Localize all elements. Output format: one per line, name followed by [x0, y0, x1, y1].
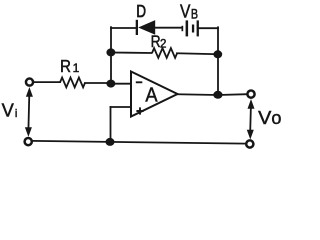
- svg-text:i: i: [15, 108, 17, 120]
- node: output junction: [213, 91, 222, 99]
- node: inverting input junction: [106, 80, 115, 88]
- battery VB bar 1 (short tick): [182, 26, 184, 31]
- node: feedback/R2 junction left: [106, 48, 115, 56]
- svg-text:D: D: [136, 1, 146, 21]
- wire input from Vi+ terminal to R1: [34, 81, 60, 83]
- wire R2 rail right segment: [177, 52, 218, 55]
- diode D (cathode bar): [136, 20, 138, 35]
- resistor R2: [152, 48, 177, 58]
- op-amp non-inverting + sign: [136, 107, 143, 114]
- op-amp A (triangle body): [131, 72, 178, 117]
- svg-text:1: 1: [73, 61, 80, 75]
- node: R2 rail right junction: [213, 50, 222, 58]
- terminal: Vi bottom: [25, 138, 32, 145]
- battery VB bar 3 (short plate): [192, 25, 194, 33]
- wire top rail middle segment (diode to battery): [155, 27, 182, 29]
- wire feedback vertical (top corner down to inverting node): [110, 27, 112, 84]
- Vo arrowhead down: [247, 130, 254, 140]
- Vi arrow line: [27, 94, 30, 130]
- Vi arrowhead up: [26, 87, 33, 97]
- svg-text:B: B: [191, 6, 198, 21]
- wire op-amp + input leftward: [111, 106, 132, 108]
- wire inverting node to op-amp - input: [111, 83, 131, 85]
- wire top rail right segment (battery to corner): [199, 27, 218, 29]
- battery VB bar 4 (long plate): [197, 20, 199, 36]
- wire right vertical rail: [217, 27, 219, 95]
- svg-text:V: V: [2, 100, 15, 121]
- svg-text:R: R: [60, 56, 71, 76]
- Vi arrowhead down: [25, 127, 32, 137]
- svg-text:o: o: [271, 108, 281, 128]
- svg-text:A: A: [145, 84, 157, 107]
- wire op-amp output to Vo terminal: [178, 93, 247, 96]
- wire + input vertical down to bottom rail: [110, 107, 112, 142]
- terminal: Vo top: [247, 91, 254, 98]
- wire bottom rail: [33, 141, 246, 144]
- terminal: Vo bottom: [246, 140, 253, 147]
- Vo arrowhead up: [248, 99, 255, 109]
- battery VB bar 2 (long plate): [186, 20, 189, 36]
- terminal: Vi top: [26, 79, 33, 86]
- resistor R1: [60, 78, 85, 88]
- svg-text:V: V: [180, 1, 191, 22]
- wire R1 to inverting node: [85, 82, 111, 84]
- Vo arrow line: [249, 106, 252, 132]
- node: bottom rail junction: [106, 138, 115, 146]
- diode D (triangle pointing left): [138, 20, 155, 35]
- wire R2 rail left segment: [111, 52, 152, 55]
- svg-text:V: V: [258, 107, 272, 128]
- wire top rail left segment: [111, 27, 136, 29]
- svg-text:2: 2: [160, 38, 166, 50]
- op-amp inverting - sign: [136, 81, 143, 83]
